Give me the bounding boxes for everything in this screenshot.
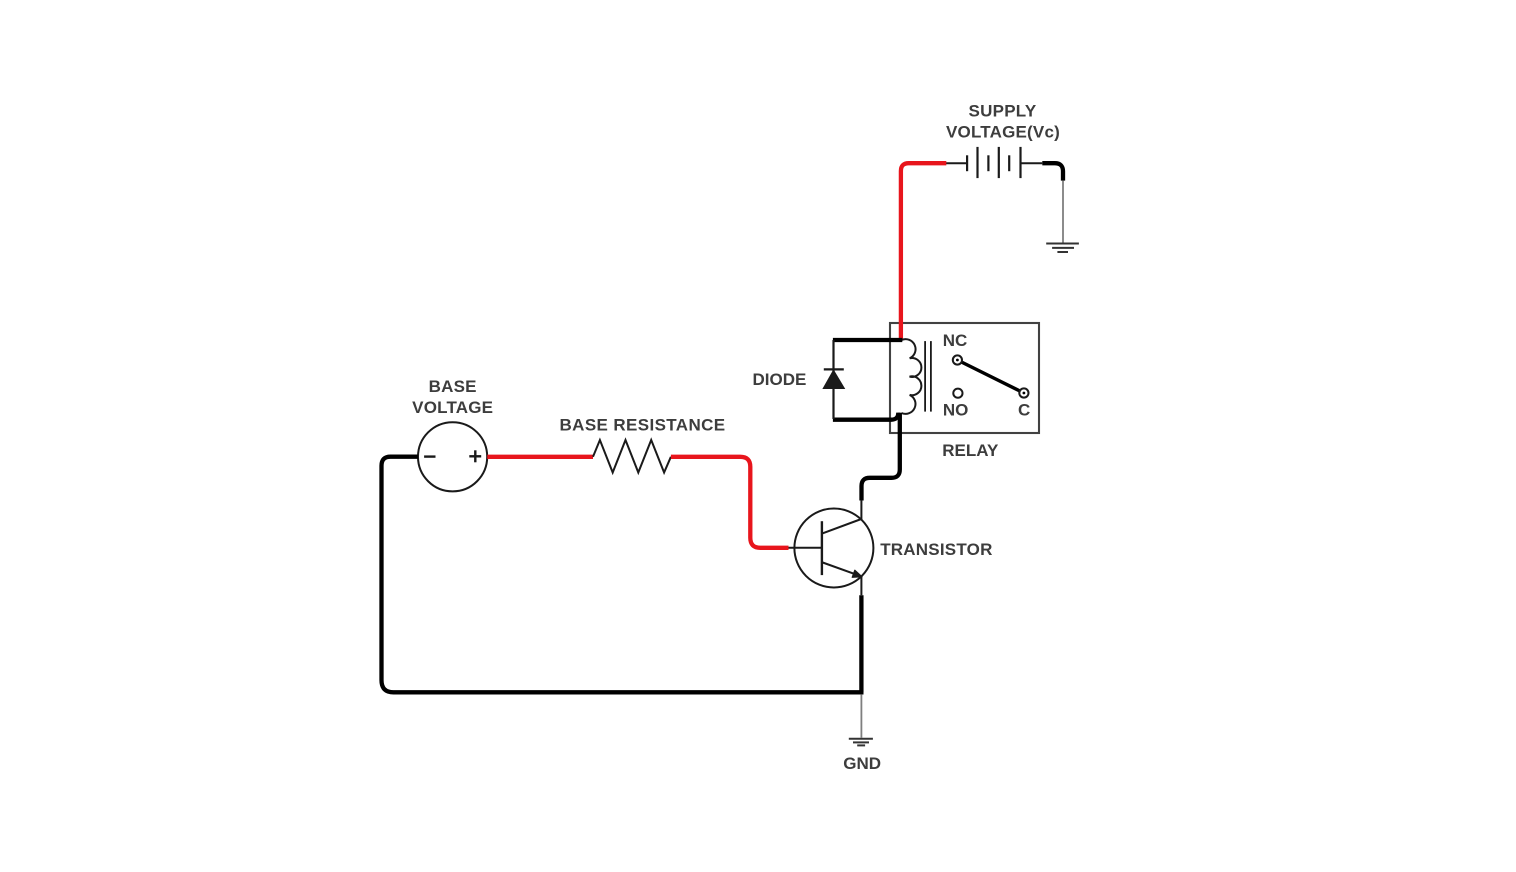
resistor R1 (base resistance) [593,440,671,473]
wire black diode bottom (jog up to coil node) [833,413,898,420]
wire black diode top [833,338,902,342]
label SUPPLY VOLTAGE(Vc) [946,102,1060,142]
transistor emitter arrow [852,570,862,577]
wire gnd lead (gray) [860,694,862,737]
svg-text:VOLTAGE(Vc): VOLTAGE(Vc) [946,123,1060,142]
source V2 (base voltage) [418,422,487,491]
ground (supply) [1046,244,1079,253]
label BASE VOLTAGE [412,377,493,417]
switch arm end dots [956,359,959,362]
relay coil [902,339,922,414]
svg-text:NO: NO [943,401,969,420]
relay box [890,323,1039,433]
svg-text:NC: NC [943,331,968,350]
wire red source to resistor [487,455,593,459]
wire black emitter down [859,595,863,692]
battery V1 (supply voltage) [967,147,1020,178]
svg-text:RELAY: RELAY [942,441,999,460]
svg-text:C: C [1018,400,1030,419]
wire black base voltage minus to bottom rail [382,457,864,693]
wire red supply (battery to relay coil) [901,163,946,339]
wire emitter thin lead [860,576,862,595]
svg-text:DIODE: DIODE [752,370,806,389]
relay switch arm NC-C [957,360,1024,393]
transistor Q1 [789,509,874,588]
wire battery left lead [946,162,968,164]
svg-text:SUPPLY: SUPPLY [969,102,1037,121]
svg-text:VOLTAGE: VOLTAGE [412,398,493,417]
terminal NO [953,389,962,398]
svg-text:GND: GND [843,754,881,773]
wire battery right lead [1021,162,1043,164]
diode D1 [823,340,844,419]
svg-text:BASE: BASE [429,377,477,396]
wire ground lead (gray) [1062,181,1064,244]
relay core bars [924,341,926,412]
ground GND [849,739,873,746]
terminal NC [953,355,962,364]
svg-text:TRANSISTOR: TRANSISTOR [880,540,992,559]
wire black battery to ground [1042,163,1063,180]
wire collector thin lead [860,500,862,520]
wire red resistor to transistor base [671,457,789,548]
wire black relay coil to transistor collector [862,413,900,501]
terminal C [1019,388,1028,397]
svg-text:BASE RESISTANCE: BASE RESISTANCE [560,415,726,434]
